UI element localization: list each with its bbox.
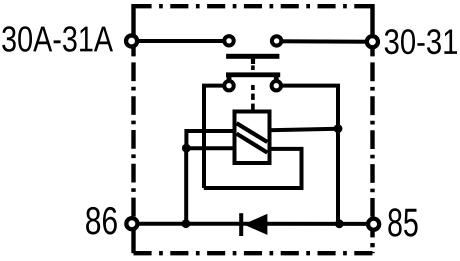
label 30A-31A	[2, 26, 113, 52]
actuator nub under bar 1	[251, 59, 255, 65]
diode V1 cathode bar	[239, 213, 243, 236]
junction dot bottom right	[335, 219, 344, 228]
lower contact right stem	[274, 77, 279, 82]
terminal 30A-31A	[126, 35, 137, 46]
fixed contact upper-left	[224, 36, 233, 45]
relay coil K1 box	[235, 112, 270, 164]
relay housing border bottom edge	[134, 251, 373, 255]
fixed contact upper-right	[272, 36, 281, 45]
mechanical link dash 3	[251, 94, 255, 100]
wire: coil upper-left to node A corner	[186, 131, 236, 148]
lower contact right	[272, 81, 281, 90]
label 86	[86, 207, 117, 235]
lower contact left stem	[227, 77, 232, 82]
mechanical link dash 1	[251, 65, 255, 70]
movable bridge contact bar 1	[226, 54, 279, 59]
wire: coil upper-right to node B	[268, 129, 338, 131]
mechanical link dash 4	[251, 104, 255, 110]
node B junction dot	[334, 124, 343, 133]
label 30-31	[385, 29, 457, 54]
wire: coil lower-right hook around to left vertical	[204, 149, 302, 188]
wire: lower-right contact right then down to bottom wire	[276, 86, 338, 224]
relay housing border (dash-dot) top edge	[134, 4, 373, 8]
coil hatch diagonal 2	[237, 134, 268, 153]
movable bridge contact bar 2	[226, 72, 280, 77]
relay housing border right edge	[370, 4, 374, 253]
mechanical link dash 2	[251, 85, 255, 90]
diode V1 triangle	[243, 214, 267, 235]
wire: lower-left contact left then down to node	[204, 86, 229, 188]
coil hatch diagonal 1	[237, 123, 268, 142]
junction dot bottom left	[182, 219, 191, 228]
terminal 86	[126, 218, 137, 229]
terminal 30-31	[367, 36, 378, 47]
terminal 85	[368, 219, 379, 230]
wire: node A down to bottom wire	[184, 148, 188, 224]
relay housing border left edge	[131, 4, 135, 253]
label 85	[388, 208, 417, 236]
lower contact left	[224, 81, 233, 90]
wire: terminal 30A-31A to left fixed contact	[132, 39, 229, 43]
wire: bottom bus 86 to 85	[132, 222, 374, 226]
wire: right fixed contact to terminal 30-31	[277, 39, 373, 44]
node A junction dot	[182, 144, 191, 153]
wire: node A to coil lower-left	[186, 146, 236, 150]
